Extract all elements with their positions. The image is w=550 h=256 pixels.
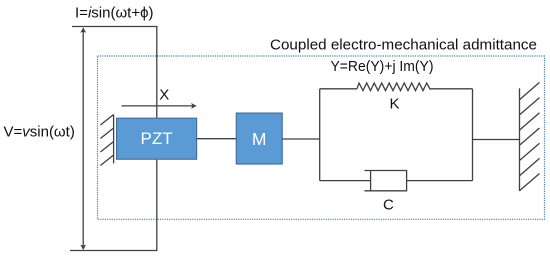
node: right branch vertical [472, 89, 474, 181]
svg-text:X: X [159, 86, 169, 103]
wire: branch to right wall [473, 139, 520, 141]
svg-text:Coupled electro-mechanical adm: Coupled electro-mechanical admittance [270, 37, 537, 54]
svg-text:M: M [252, 129, 267, 149]
svg-text:K: K [390, 96, 400, 113]
wire: bottom return lead [70, 159, 157, 251]
spring K (top branch) [320, 83, 473, 91]
svg-text:C: C [383, 197, 394, 214]
svg-text:Y=Re(Y)+j Im(Y): Y=Re(Y)+j Im(Y) [331, 58, 434, 75]
arrow: V measurement double arrow [80, 27, 86, 250]
wire: M to spring-damper branch [282, 138, 320, 140]
left fixed wall [100, 115, 113, 166]
mass M box [236, 113, 282, 164]
wire: PZT to M [197, 138, 237, 140]
admittance boundary (dashed blue box) [98, 56, 545, 219]
svg-text:I=isin(ωt+ϕ): I=isin(ωt+ϕ) [75, 5, 154, 22]
svg-text:V=vsin(ωt): V=vsin(ωt) [4, 124, 75, 141]
PZT actuator box [117, 118, 197, 159]
node: left branch vertical [319, 89, 321, 181]
right fixed wall [520, 82, 540, 190]
svg-text:PZT: PZT [141, 129, 173, 148]
damper C (bottom branch) [320, 170, 473, 191]
wire: top current lead [72, 27, 157, 119]
arrow: X displacement [122, 103, 197, 109]
